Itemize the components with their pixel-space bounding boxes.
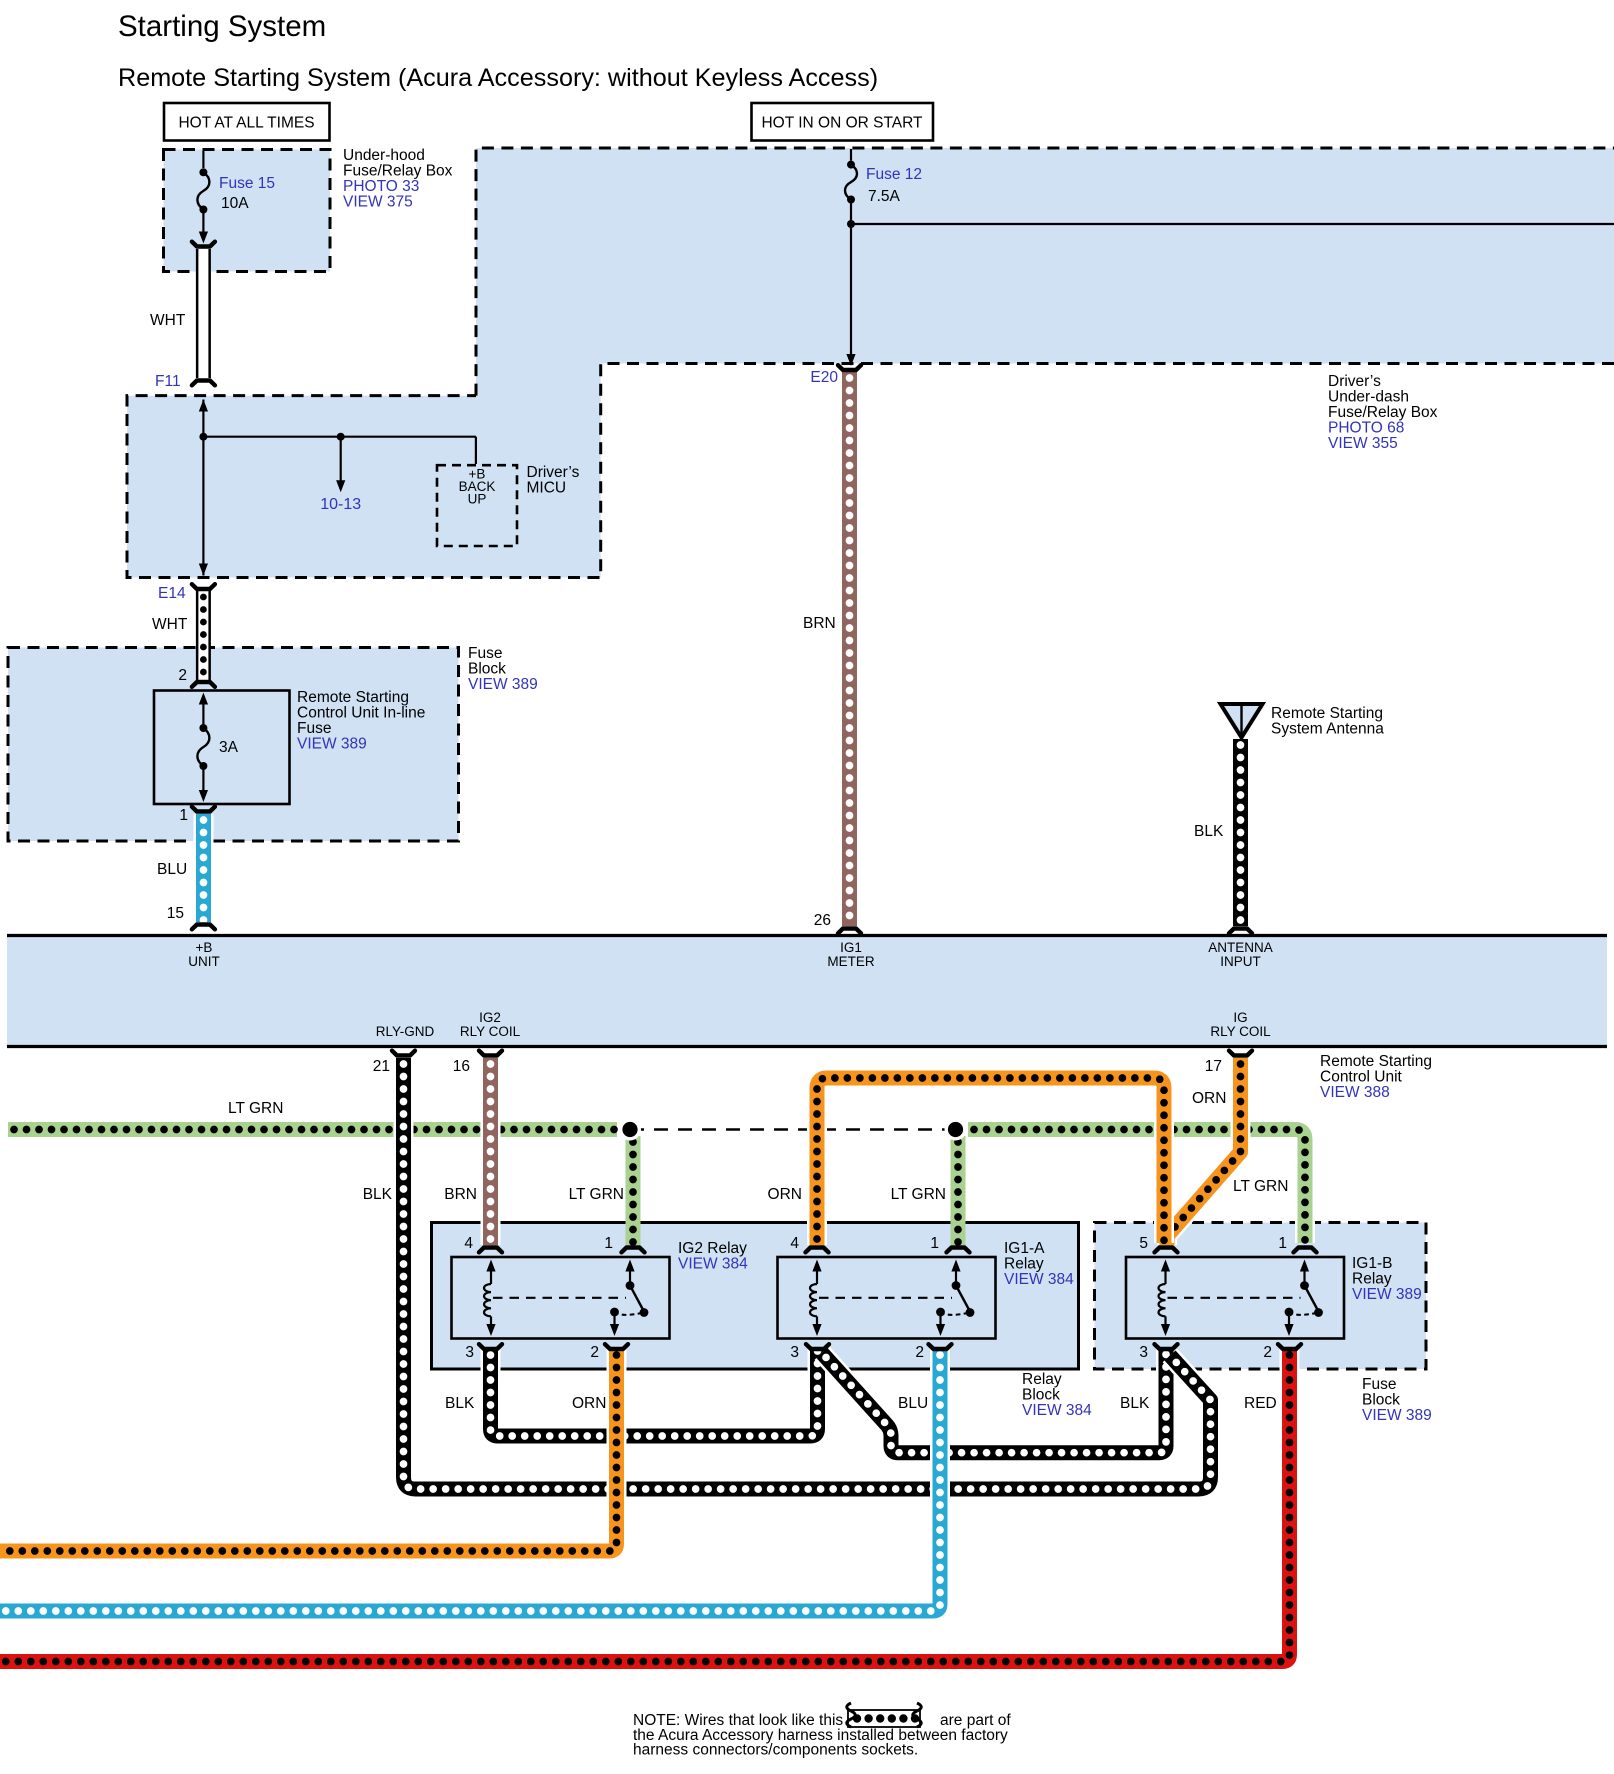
terminal IG1-A pin 4: [806, 1248, 829, 1253]
wire BLK IG1-A pin 3 to IG1-B pin 3: [822, 1349, 1166, 1453]
svg-text:17: 17: [1205, 1058, 1222, 1075]
svg-text:RLY COIL: RLY COIL: [1210, 1024, 1271, 1039]
fuse 15: [202, 151, 204, 168]
terminal IG2 pin 3: [479, 1344, 502, 1349]
terminal 16: [479, 1051, 502, 1056]
junction at fuse 12 output: [847, 220, 855, 228]
svg-text:1: 1: [1278, 1235, 1287, 1252]
svg-text:4: 4: [790, 1235, 799, 1252]
node LT GRN junction B: [945, 1119, 967, 1141]
wire LT GRN drop to IG2 pin 1: [626, 1136, 641, 1245]
terminal 1: [192, 807, 215, 812]
svg-text:BRN: BRN: [803, 615, 836, 632]
wire BLU in-line fuse to terminal 15: [194, 814, 214, 922]
svg-text:Fuse 12: Fuse 12: [866, 166, 922, 183]
svg-text:METER: METER: [827, 954, 875, 969]
svg-text:+B: +B: [196, 940, 213, 955]
svg-text:ANTENNA: ANTENNA: [1208, 940, 1273, 955]
wire BRN terminal 16 to IG2 pin 4: [481, 1058, 501, 1245]
junction 10-13 branch: [337, 433, 345, 441]
svg-text:UP: UP: [468, 492, 487, 507]
svg-text:LT GRN: LT GRN: [891, 1186, 946, 1203]
svg-text:Remote Starting System (Acura: Remote Starting System (Acura Accessory:…: [118, 64, 878, 92]
MICU internal wire F11 to E14: [202, 400, 204, 576]
svg-text:15: 15: [167, 905, 184, 922]
svg-text:BLK: BLK: [445, 1395, 475, 1412]
svg-text:1: 1: [930, 1235, 939, 1252]
relay U1 IG2 Relay internals: [452, 1257, 670, 1339]
svg-text:System Antenna: System Antenna: [1271, 721, 1384, 738]
svg-text:WHT: WHT: [150, 312, 186, 329]
wire BLU IG1-A pin 2 output: [0, 1349, 940, 1611]
svg-text:Fuse: Fuse: [468, 645, 502, 662]
terminal 15: [192, 925, 215, 930]
svg-text:RED: RED: [1244, 1395, 1277, 1412]
terminal 17: [1229, 1051, 1252, 1056]
svg-text:ORN: ORN: [1192, 1090, 1226, 1107]
svg-text:Fuse/Relay Box: Fuse/Relay Box: [1328, 404, 1438, 421]
svg-text:3A: 3A: [219, 739, 239, 756]
svg-text:2: 2: [1263, 1344, 1272, 1361]
wire to right edge: [851, 223, 1614, 225]
svg-text:4: 4: [464, 1235, 473, 1252]
relay U3 IG1-B Relay internals: [1126, 1257, 1344, 1339]
svg-text:Fuse/Relay Box: Fuse/Relay Box: [343, 163, 453, 180]
svg-text:Remote Starting: Remote Starting: [297, 689, 409, 706]
fuse 12: [850, 149, 852, 161]
svg-text:Control Unit In-line: Control Unit In-line: [297, 705, 425, 722]
wire LT GRN right segment to IG1-B pin 1: [968, 1130, 1305, 1244]
junction on MICU vertical: [199, 433, 207, 441]
svg-text:E20: E20: [810, 369, 838, 386]
svg-text:Block: Block: [1022, 1387, 1060, 1404]
svg-text:ORN: ORN: [572, 1395, 606, 1412]
svg-text:Driver’s: Driver’s: [527, 464, 580, 481]
svg-text:BLU: BLU: [898, 1395, 928, 1412]
svg-text:Starting System: Starting System: [118, 10, 326, 43]
svg-text:Relay: Relay: [1022, 1371, 1062, 1388]
terminal cap under fuse 15: [192, 242, 215, 247]
wire BLK IG2 pin 3 to IG1-A pin 3: [491, 1349, 818, 1436]
wire WHT fuse 15 to F11 (bus bar): [196, 249, 211, 378]
svg-text:26: 26: [814, 912, 831, 929]
dashed link between LT GRN junctions: [630, 1128, 956, 1131]
terminal IG1-B pin 5: [1155, 1248, 1178, 1253]
fuse 3A: [199, 693, 208, 705]
svg-text:BLK: BLK: [1120, 1395, 1150, 1412]
svg-text:Fuse 15: Fuse 15: [219, 175, 275, 192]
svg-text:VIEW 384: VIEW 384: [678, 1256, 748, 1273]
terminal IG2 pin 2: [605, 1344, 628, 1349]
svg-text:Under-dash: Under-dash: [1328, 389, 1409, 406]
svg-text:Under-hood: Under-hood: [343, 147, 425, 164]
svg-text:IG1: IG1: [840, 940, 862, 955]
wire RED IG1-B pin 2 output: [0, 1349, 1290, 1662]
svg-text:IG2: IG2: [479, 1010, 501, 1025]
+B BACK UP box: [437, 465, 517, 546]
svg-text:Control Unit: Control Unit: [1320, 1069, 1403, 1086]
wire LT GRN horizontal left segment: [8, 1122, 617, 1137]
svg-text:5: 5: [1139, 1235, 1148, 1252]
svg-text:3: 3: [465, 1344, 474, 1361]
svg-text:7.5A: 7.5A: [868, 188, 901, 205]
wire WHT E14 to fuse block terminal 2: [196, 591, 211, 680]
fuse block (top left): [8, 648, 459, 842]
wire LT GRN drop to IG1-A pin 1: [951, 1136, 966, 1245]
relay U2 IG1-A Relay internals: [778, 1257, 996, 1339]
svg-text:Fuse: Fuse: [1362, 1376, 1396, 1393]
relay block: [432, 1223, 1079, 1370]
svg-text:F11: F11: [155, 373, 181, 390]
terminal IG1-B pin 1: [1294, 1248, 1317, 1253]
terminal 26: [838, 929, 861, 934]
wire MICU horizontal branch: [203, 436, 476, 438]
terminal IG1-A pin 1: [947, 1248, 970, 1253]
remote starting control unit in-line fuse box: [154, 691, 290, 805]
wire fuse12 to E20: [850, 203, 852, 361]
svg-text:LT GRN: LT GRN: [228, 1100, 283, 1117]
fuse block (right, contains IG1-B relay): [1095, 1223, 1427, 1370]
svg-text:10-13: 10-13: [320, 496, 361, 513]
wire BRN E20 to terminal 26: [840, 372, 860, 926]
svg-text:VIEW 375: VIEW 375: [343, 194, 413, 211]
driver's under-dash fuse/relay box + driver's MICU outline: [127, 148, 1614, 578]
svg-text:1: 1: [179, 807, 188, 824]
svg-text:2: 2: [590, 1344, 599, 1361]
svg-text:VIEW 389: VIEW 389: [468, 676, 538, 693]
terminal E20: [838, 365, 861, 370]
svg-text:VIEW 388: VIEW 388: [1320, 1084, 1390, 1101]
svg-text:VIEW 389: VIEW 389: [297, 736, 367, 753]
svg-text:E14: E14: [158, 585, 186, 602]
terminal IG1-B pin 3: [1155, 1344, 1178, 1349]
svg-text:3: 3: [1139, 1344, 1148, 1361]
svg-text:IG1-A: IG1-A: [1004, 1240, 1045, 1257]
wire to +B BACK UP: [475, 437, 477, 464]
wire BLK antenna to ANTENNA INPUT: [1231, 739, 1251, 926]
svg-text:16: 16: [453, 1058, 470, 1075]
terminal E14: [192, 584, 215, 589]
wire ORN terminal 17 to IG1-B pin 5: [1167, 1058, 1241, 1245]
svg-text:Relay: Relay: [1004, 1256, 1044, 1273]
svg-text:PHOTO 33: PHOTO 33: [343, 178, 419, 195]
svg-text:IG1-B: IG1-B: [1352, 1255, 1392, 1272]
svg-text:VIEW 389: VIEW 389: [1352, 1286, 1422, 1303]
svg-text:INPUT: INPUT: [1220, 954, 1261, 969]
svg-text:HOT IN ON OR START: HOT IN ON OR START: [761, 115, 923, 132]
svg-text:ORN: ORN: [768, 1186, 802, 1203]
svg-text:harness connectors/components: harness connectors/components sockets.: [633, 1742, 918, 1759]
remote starting system antenna: [1221, 704, 1263, 738]
svg-text:WHT: WHT: [152, 616, 188, 633]
wire BLK terminal 21 to IG1-B pin 3 (ground): [404, 1058, 1211, 1489]
svg-text:21: 21: [373, 1058, 390, 1075]
svg-text:Remote Starting: Remote Starting: [1320, 1053, 1432, 1070]
terminal F11: [192, 381, 215, 386]
svg-text:VIEW 355: VIEW 355: [1328, 435, 1398, 452]
HOT AT ALL TIMES box: [164, 103, 330, 141]
terminal IG2 pin 1: [622, 1248, 645, 1253]
svg-text:VIEW 384: VIEW 384: [1022, 1402, 1092, 1419]
svg-text:HOT AT ALL TIMES: HOT AT ALL TIMES: [178, 115, 314, 132]
svg-text:Block: Block: [468, 661, 506, 678]
terminal IG1-B pin 2: [1278, 1344, 1301, 1349]
svg-text:BLK: BLK: [363, 1186, 393, 1203]
svg-text:Block: Block: [1362, 1392, 1400, 1409]
svg-text:1: 1: [604, 1235, 613, 1252]
remote starting control unit band: [7, 937, 1607, 1046]
svg-text:10A: 10A: [221, 195, 249, 212]
svg-text:VIEW 389: VIEW 389: [1362, 1407, 1432, 1424]
svg-text:Relay: Relay: [1352, 1271, 1392, 1288]
svg-text:RLY COIL: RLY COIL: [460, 1024, 521, 1039]
svg-text:PHOTO 68: PHOTO 68: [1328, 420, 1404, 437]
svg-text:Driver’s: Driver’s: [1328, 373, 1381, 390]
svg-text:2: 2: [915, 1344, 924, 1361]
svg-text:VIEW 384: VIEW 384: [1004, 1271, 1074, 1288]
svg-text:RLY-GND: RLY-GND: [376, 1024, 435, 1039]
svg-text:LT GRN: LT GRN: [569, 1186, 624, 1203]
svg-text:3: 3: [790, 1344, 799, 1361]
wire ORN IG1-A pin 4 to IG1-B pin 5: [817, 1078, 1164, 1245]
under-hood fuse/relay box: [164, 150, 331, 272]
terminal IG1-A pin 2: [929, 1344, 952, 1349]
wire to 10-13: [340, 437, 342, 482]
svg-text:Remote Starting: Remote Starting: [1271, 705, 1383, 722]
svg-text:BLU: BLU: [157, 861, 187, 878]
svg-text:UNIT: UNIT: [188, 954, 220, 969]
svg-text:2: 2: [178, 667, 187, 684]
terminal ANTENNA INPUT: [1229, 929, 1252, 934]
svg-text:IG2 Relay: IG2 Relay: [678, 1240, 747, 1257]
node LT GRN junction A: [619, 1119, 641, 1141]
terminal 21: [392, 1051, 415, 1056]
wire ORN IG2 pin 2 output: [0, 1349, 617, 1551]
HOT IN ON OR START box: [752, 103, 934, 141]
terminal 2: [192, 682, 215, 687]
note harness wire sample symbol: [847, 1703, 922, 1727]
svg-text:MICU: MICU: [527, 480, 567, 497]
svg-text:BLK: BLK: [1194, 823, 1224, 840]
terminal IG2 pin 4: [479, 1248, 502, 1253]
svg-text:Fuse: Fuse: [297, 720, 331, 737]
terminal IG1-A pin 3: [806, 1344, 829, 1349]
svg-text:IG: IG: [1233, 1010, 1247, 1025]
svg-text:BRN: BRN: [444, 1186, 477, 1203]
svg-text:LT GRN: LT GRN: [1233, 1178, 1288, 1195]
